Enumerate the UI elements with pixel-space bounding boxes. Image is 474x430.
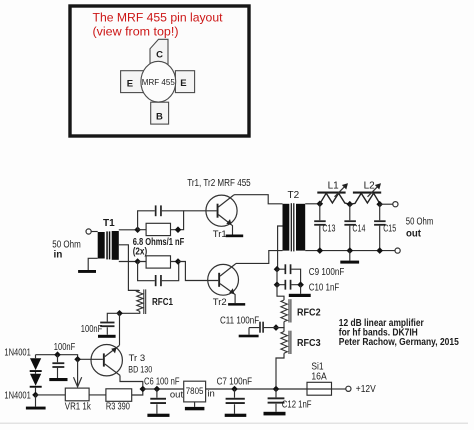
svg-text:(2x): (2x) (133, 247, 148, 258)
node C9 tap (274, 266, 281, 273)
wire node to RFC3 (276, 328, 284, 332)
wire Tr1 collector to T2 (234, 195, 283, 204)
MRF455 package body (141, 61, 176, 102)
node C6 (154, 386, 161, 393)
wire input to T1 (91, 231, 97, 233)
capacitor C10 (277, 280, 339, 294)
wire fuse to +12V terminal (332, 388, 346, 390)
svg-text:RFC1: RFC1 (152, 297, 173, 308)
node B (L1/L2 junction) (347, 201, 354, 208)
wire output bottom rail (305, 250, 395, 252)
output terminal bottom (395, 248, 400, 253)
svg-text:100nF: 100nF (54, 342, 75, 353)
svg-text:C11 100nF: C11 100nF (220, 315, 259, 326)
choke RFC1 (137, 289, 174, 314)
svg-text:C12 1nF: C12 1nF (282, 400, 312, 411)
svg-text:VR1 1k: VR1 1k (65, 402, 92, 413)
value label 6.8 Ohms/1 nF (2x) (133, 237, 185, 258)
svg-text:C10 1nF: C10 1nF (309, 282, 339, 293)
capacitor C14 (344, 204, 365, 250)
ground (C12) (264, 412, 286, 416)
resistor 6.8 Ohms (lower) (138, 256, 178, 268)
MRF455 pin layout box (70, 6, 249, 136)
wire upper base (184, 210, 217, 212)
faint bottom rail artifact (0, 423, 468, 424)
wire +12V rail middle (206, 388, 307, 390)
50 Ohm out label (406, 216, 434, 239)
title text: The MRF 455 pin layout (93, 11, 224, 39)
node C9/C10 right (297, 281, 304, 288)
choke RFC3 (281, 331, 321, 354)
wire Tr2 collector to T2 (235, 251, 282, 265)
+12V terminal (346, 384, 376, 395)
wire C10 tap to RFC2 (277, 285, 284, 300)
wire T2 center tap down (278, 226, 283, 269)
wire T2 secondary top to node A (305, 203, 320, 205)
svg-text:16A: 16A (311, 372, 327, 383)
svg-text:RFC2: RFC2 (297, 308, 321, 319)
pin tab C (collector) (150, 39, 168, 66)
wire R3 to +12V node (132, 389, 143, 395)
transistor Tr2 (208, 264, 239, 308)
choke RFC2 (281, 299, 321, 322)
capacitor C15 (374, 204, 396, 250)
node upper RC right (175, 226, 182, 233)
inductor L1 (variable) (317, 181, 350, 205)
wire diode node to VR1 (36, 394, 66, 396)
wire + ground (output network) (340, 251, 359, 264)
label 1N4001 (upper) (4, 347, 31, 358)
svg-text:Peter Rachow, Germany, 2015: Peter Rachow, Germany, 2015 (339, 337, 459, 348)
node C14 bottom (347, 247, 354, 254)
svg-text:in: in (207, 389, 214, 400)
VR1 wiper arrow (74, 359, 82, 387)
svg-text:BD 130: BD 130 (128, 365, 152, 376)
wire T1 secondary top (119, 229, 138, 231)
svg-text:L1: L1 (328, 181, 340, 192)
node upper RC left (134, 226, 141, 233)
node Tr3 collector / R3 (140, 386, 147, 393)
ground (bias cap) (49, 378, 67, 381)
svg-text:MRF 455: MRF 455 (142, 77, 175, 87)
wire + ground (7805) (185, 402, 205, 410)
svg-text:C6 100 nF: C6 100 nF (144, 377, 180, 388)
node +12V / C12 / RFC3 (273, 386, 280, 393)
svg-text:C13: C13 (322, 223, 335, 234)
ground (RFC1 decoupling cap) (98, 335, 116, 338)
svg-text:Tr1: Tr1 (213, 229, 227, 240)
wire node C to output terminal (380, 203, 393, 205)
wire +12V rail left (143, 388, 184, 390)
ground (Tr2 emitter) (228, 303, 245, 306)
capacitor 1nF (lower) branch wires (138, 262, 179, 281)
capacitor C11 (220, 315, 276, 332)
amplifier title text (339, 318, 459, 348)
wire Tr1 emitter to ground (231, 224, 233, 234)
node lower RC right (175, 258, 182, 265)
svg-text:(view from top!): (view from top!) (93, 25, 179, 39)
50 Ohm in label (52, 239, 81, 260)
svg-text:1N4001: 1N4001 (4, 347, 31, 358)
wire T1 primary bottom to ground (88, 258, 98, 270)
node bias cap tap (54, 351, 61, 358)
inductor L2 (variable) (350, 181, 381, 205)
svg-text:R3 390: R3 390 (106, 402, 130, 413)
node Tr3 base / wiper (74, 356, 81, 363)
svg-text:E: E (127, 79, 133, 90)
capacitor 1nF (upper) branch wires (138, 211, 184, 230)
transistor Tr1 (206, 195, 237, 240)
capacitor 1nF (lower) plates (155, 275, 162, 286)
fuse Si1 16A (307, 362, 332, 395)
node A (L1 left) (317, 201, 324, 208)
capacitor C12 1nF (268, 389, 312, 412)
svg-text:Tr 3: Tr 3 (129, 353, 146, 364)
node C (L2 right) (376, 201, 383, 208)
wire Tr3 collector to +12V node (120, 375, 143, 389)
node C13 bottom (317, 247, 324, 254)
svg-text:in: in (54, 249, 63, 260)
diode D2 1N4001 (30, 372, 42, 395)
svg-text:C9 100nF: C9 100nF (309, 267, 345, 278)
pin tab E right (emitter) (175, 71, 194, 93)
svg-text:C15: C15 (383, 223, 396, 234)
transistor Tr3 (91, 345, 152, 376)
svg-text:E: E (180, 78, 186, 89)
svg-text:C: C (156, 50, 163, 61)
capacitor 1nF (upper) plates (155, 205, 162, 216)
output terminal top (393, 202, 398, 207)
input terminal (86, 229, 91, 234)
svg-text:T1: T1 (103, 218, 115, 229)
resistor 6.8 Ohms (upper) (138, 223, 178, 235)
svg-text:C7 100nF: C7 100nF (217, 377, 252, 388)
resistor R3 390 (106, 389, 132, 413)
capacitor C6 100nF (144, 377, 180, 414)
capacitor C9 (277, 264, 344, 284)
wire lower base (178, 262, 218, 281)
wire node to Tr3 emitter (119, 313, 121, 345)
capacitor C13 (314, 204, 336, 251)
regulator 7805 (170, 381, 215, 402)
svg-text:+12V: +12V (356, 384, 376, 395)
node RFC2/RFC3/C11 (273, 324, 280, 331)
wire VR1 to R3 (89, 394, 106, 396)
ground (C7) (225, 414, 247, 417)
svg-text:RFC3: RFC3 (297, 338, 321, 349)
svg-text:50 Ohm: 50 Ohm (406, 216, 434, 227)
svg-text:100nF: 100nF (81, 324, 102, 335)
wire Tr2 emitter to ground (234, 294, 235, 304)
node C10 tap (274, 281, 281, 288)
ground (Tr1 emitter) (226, 235, 244, 238)
node diode bottom (32, 392, 39, 399)
wire RFC1 bottom to node (120, 311, 140, 313)
wire T1 center tap down to RFC1 (119, 245, 139, 291)
transformer T1 (98, 218, 119, 260)
ground (input) (78, 270, 96, 273)
wire RFC2 bottom to node (276, 322, 284, 328)
svg-text:1N4001: 1N4001 (4, 390, 31, 401)
label Tr1, Tr2 MRF 455 (187, 178, 251, 189)
node lower RC left (134, 258, 141, 265)
capacitor 100nF (bias) (52, 342, 75, 378)
wire bias top rail (36, 355, 103, 360)
diode D1 1N4001 (30, 355, 42, 372)
svg-text:Tr2: Tr2 (213, 297, 227, 308)
pin tab B (base) (151, 102, 169, 124)
svg-text:out: out (406, 228, 422, 239)
capacitor 100nF (RFC1 decoupling) (81, 313, 120, 335)
wire RFC3 bottom to +12V node (276, 353, 284, 389)
wire RFC1 riser and coil top (128, 289, 139, 291)
node C7 (231, 386, 238, 393)
wire T1 secondary bottom (119, 261, 138, 263)
potentiometer VR1 1k (65, 388, 92, 413)
svg-text:The MRF 455 pin layout: The MRF 455 pin layout (93, 11, 224, 25)
svg-text:T2: T2 (288, 190, 300, 201)
node RFC1/Tr3 emitter (116, 310, 123, 317)
wire + ground (C11) (239, 328, 259, 338)
label 1N4001 (lower) (4, 390, 31, 401)
pin tab E left (emitter) (121, 71, 146, 93)
capacitor C7 100nF (217, 377, 252, 414)
wire + ground (diodes) (26, 395, 46, 410)
ground (C6) (147, 414, 169, 417)
svg-text:out: out (170, 389, 184, 400)
svg-text:L2: L2 (364, 181, 376, 192)
transformer T2 (283, 190, 306, 251)
svg-text:B: B (156, 112, 163, 123)
node C15 bottom (376, 247, 383, 254)
wire C9-C10 segment (276, 269, 278, 285)
svg-text:7805: 7805 (186, 386, 204, 397)
wire + ground (C9/C10) (289, 285, 311, 297)
svg-text:C14: C14 (352, 223, 365, 234)
svg-text:Tr1, Tr2 MRF 455: Tr1, Tr2 MRF 455 (187, 178, 251, 189)
